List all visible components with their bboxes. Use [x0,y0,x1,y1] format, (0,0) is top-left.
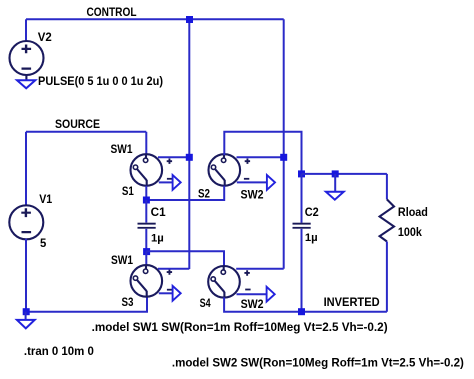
svg-text:1µ: 1µ [305,232,318,244]
label C2 value 1u [305,232,318,244]
resistor Rload body [380,199,394,241]
label S2 [198,187,210,201]
svg-text:PULSE(0 5 1u 0 0 1u 2u): PULSE(0 5 1u 0 0 1u 2u) [38,74,163,88]
wire S2 plus lead [237,156,284,158]
label Rload [398,205,428,219]
svg-text:C2: C2 [305,205,319,219]
wire C2 bottom stub [301,229,303,312]
junction bottom left [23,308,30,315]
svg-text:100k: 100k [398,225,422,239]
label V1 value 5 [40,236,47,250]
node SOURCE label [55,117,100,131]
svg-text:V1: V1 [39,192,52,206]
capacitor C2 [293,223,311,229]
label S1 [122,184,134,198]
wire S4 plus lead [236,268,284,270]
svg-text:S2: S2 [198,187,210,201]
ground bottom left [17,320,35,329]
label C1 [151,205,166,219]
wire C1 top stub [145,200,147,223]
voltage source V1 [9,205,43,239]
junction C1 top [143,197,150,204]
svg-text:.model SW2 SW(Ron=10Meg Roff=1: .model SW2 SW(Ron=10Meg Roff=1m Vt=2.5 V… [172,356,464,370]
switch S4 [208,266,275,302]
label SW1 (S3) [111,253,133,267]
label S3 [122,295,134,309]
label S4 [200,296,211,310]
junction S1 plus [186,154,193,161]
junction CONTROL split [186,16,193,23]
label V1 [39,192,52,206]
svg-text:Rload: Rload [398,205,428,219]
svg-text:SW2: SW2 [241,188,264,202]
switch S3 [131,265,181,301]
junction C1 bottom [143,248,150,255]
directive .model SW1 [92,320,388,334]
label SW1 (S1) [111,142,133,156]
resistor Rload top lead [386,174,388,200]
wire mid rail to S2 bottom [146,186,224,200]
wire S1 bottom pin [145,186,147,200]
junction S2 plus [280,154,287,161]
wire left ground stem [25,312,27,320]
svg-text:5: 5 [40,236,47,250]
svg-text:1µ: 1µ [151,233,164,245]
label SW2 (S2) [241,188,264,202]
wire V1 bottom to rail [26,239,147,312]
ground below V2 [17,80,35,88]
wire rail to S4 top [146,251,224,266]
capacitor C1 [138,223,156,229]
svg-text:S4: S4 [200,296,211,310]
svg-text:SW1: SW1 [111,142,133,156]
wire SOURCE rail [26,131,146,133]
wire left column V1 top [25,132,27,206]
wire S1 plus lead [158,156,189,158]
wire S1 top pin [145,132,147,155]
label SW2 (S4) [241,297,264,311]
svg-text:SW1: SW1 [111,253,133,267]
label C2 [305,205,319,219]
label V2 [38,30,52,44]
label Rload value 100k [398,225,422,239]
wire C2 top stub [301,174,303,223]
svg-text:SW2: SW2 [241,297,264,311]
switch S1 [131,154,181,190]
junction C2 bottom [298,308,305,315]
svg-text:S3: S3 [122,295,134,309]
ground right [326,192,344,200]
wire S3 top pin [145,251,147,265]
svg-text:CONTROL: CONTROL [87,5,137,19]
svg-text:S1: S1 [122,184,134,198]
wire bottom right rail from S4 [224,297,387,311]
svg-text:SOURCE: SOURCE [55,117,100,131]
wire V2 ground stem [25,75,27,80]
wire control left branch [188,19,190,269]
directive .model SW2 [172,356,464,370]
label C1 value 1u [151,233,164,245]
wire S2 top elbow to C2 [224,132,301,174]
wire right horizontal rail [302,173,387,175]
svg-text:INVERTED: INVERTED [324,295,380,309]
wire V2 top stem [25,19,27,42]
svg-text:.model SW1 SW(Ron=1m Roff=10Me: .model SW1 SW(Ron=1m Roff=10Meg Vt=2.5 V… [92,320,388,334]
label PULSE value [38,74,163,88]
junction C2 top [298,170,305,177]
node CONTROL label [87,5,137,19]
node INVERTED label [324,295,380,309]
voltage source V2 [10,41,44,75]
svg-text:V2: V2 [38,30,52,44]
svg-text:C1: C1 [151,205,166,219]
wire CONTROL top rail [26,18,284,20]
directive .tran [24,344,94,358]
resistor Rload bottom lead [386,242,388,312]
junction right ground [332,170,339,177]
svg-text:.tran 0 10m 0: .tran 0 10m 0 [24,344,94,358]
wire C1 bottom stub [145,229,147,252]
wire S3 plus lead [158,268,189,270]
wire right ground stem [334,174,336,192]
switch S2 [209,154,276,190]
wire control right branch [283,19,285,268]
